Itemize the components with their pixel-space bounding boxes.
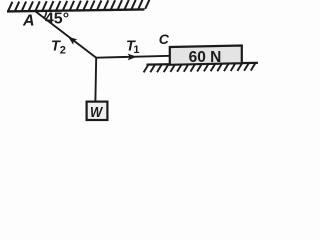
svg-text:1: 1 (133, 44, 139, 56)
svg-text:C: C (159, 31, 170, 47)
block 60 N resting on ground at C (170, 46, 242, 65)
svg-text:A: A (22, 13, 35, 30)
svg-text:2: 2 (60, 45, 66, 57)
svg-text:W: W (90, 104, 104, 121)
ground (hatched floor under block) (144, 63, 258, 73)
svg-text:45°: 45° (45, 10, 69, 27)
ceiling (hatched overhead support) (7, 0, 149, 11)
rope segment T1 (junction to block at C) (96, 56, 170, 58)
arrowhead of tension T2 (points toward A) (68, 37, 77, 45)
arrowhead of tension T1 (points toward block) (128, 54, 137, 61)
svg-text:60 N: 60 N (189, 49, 222, 66)
angle arc 45 degrees at anchor A (44, 10, 46, 18)
rope segment T2 (from anchor A to junction) (35, 11, 96, 58)
rope segment (junction down to weight W) (94, 57, 97, 101)
weight box W (87, 102, 108, 120)
